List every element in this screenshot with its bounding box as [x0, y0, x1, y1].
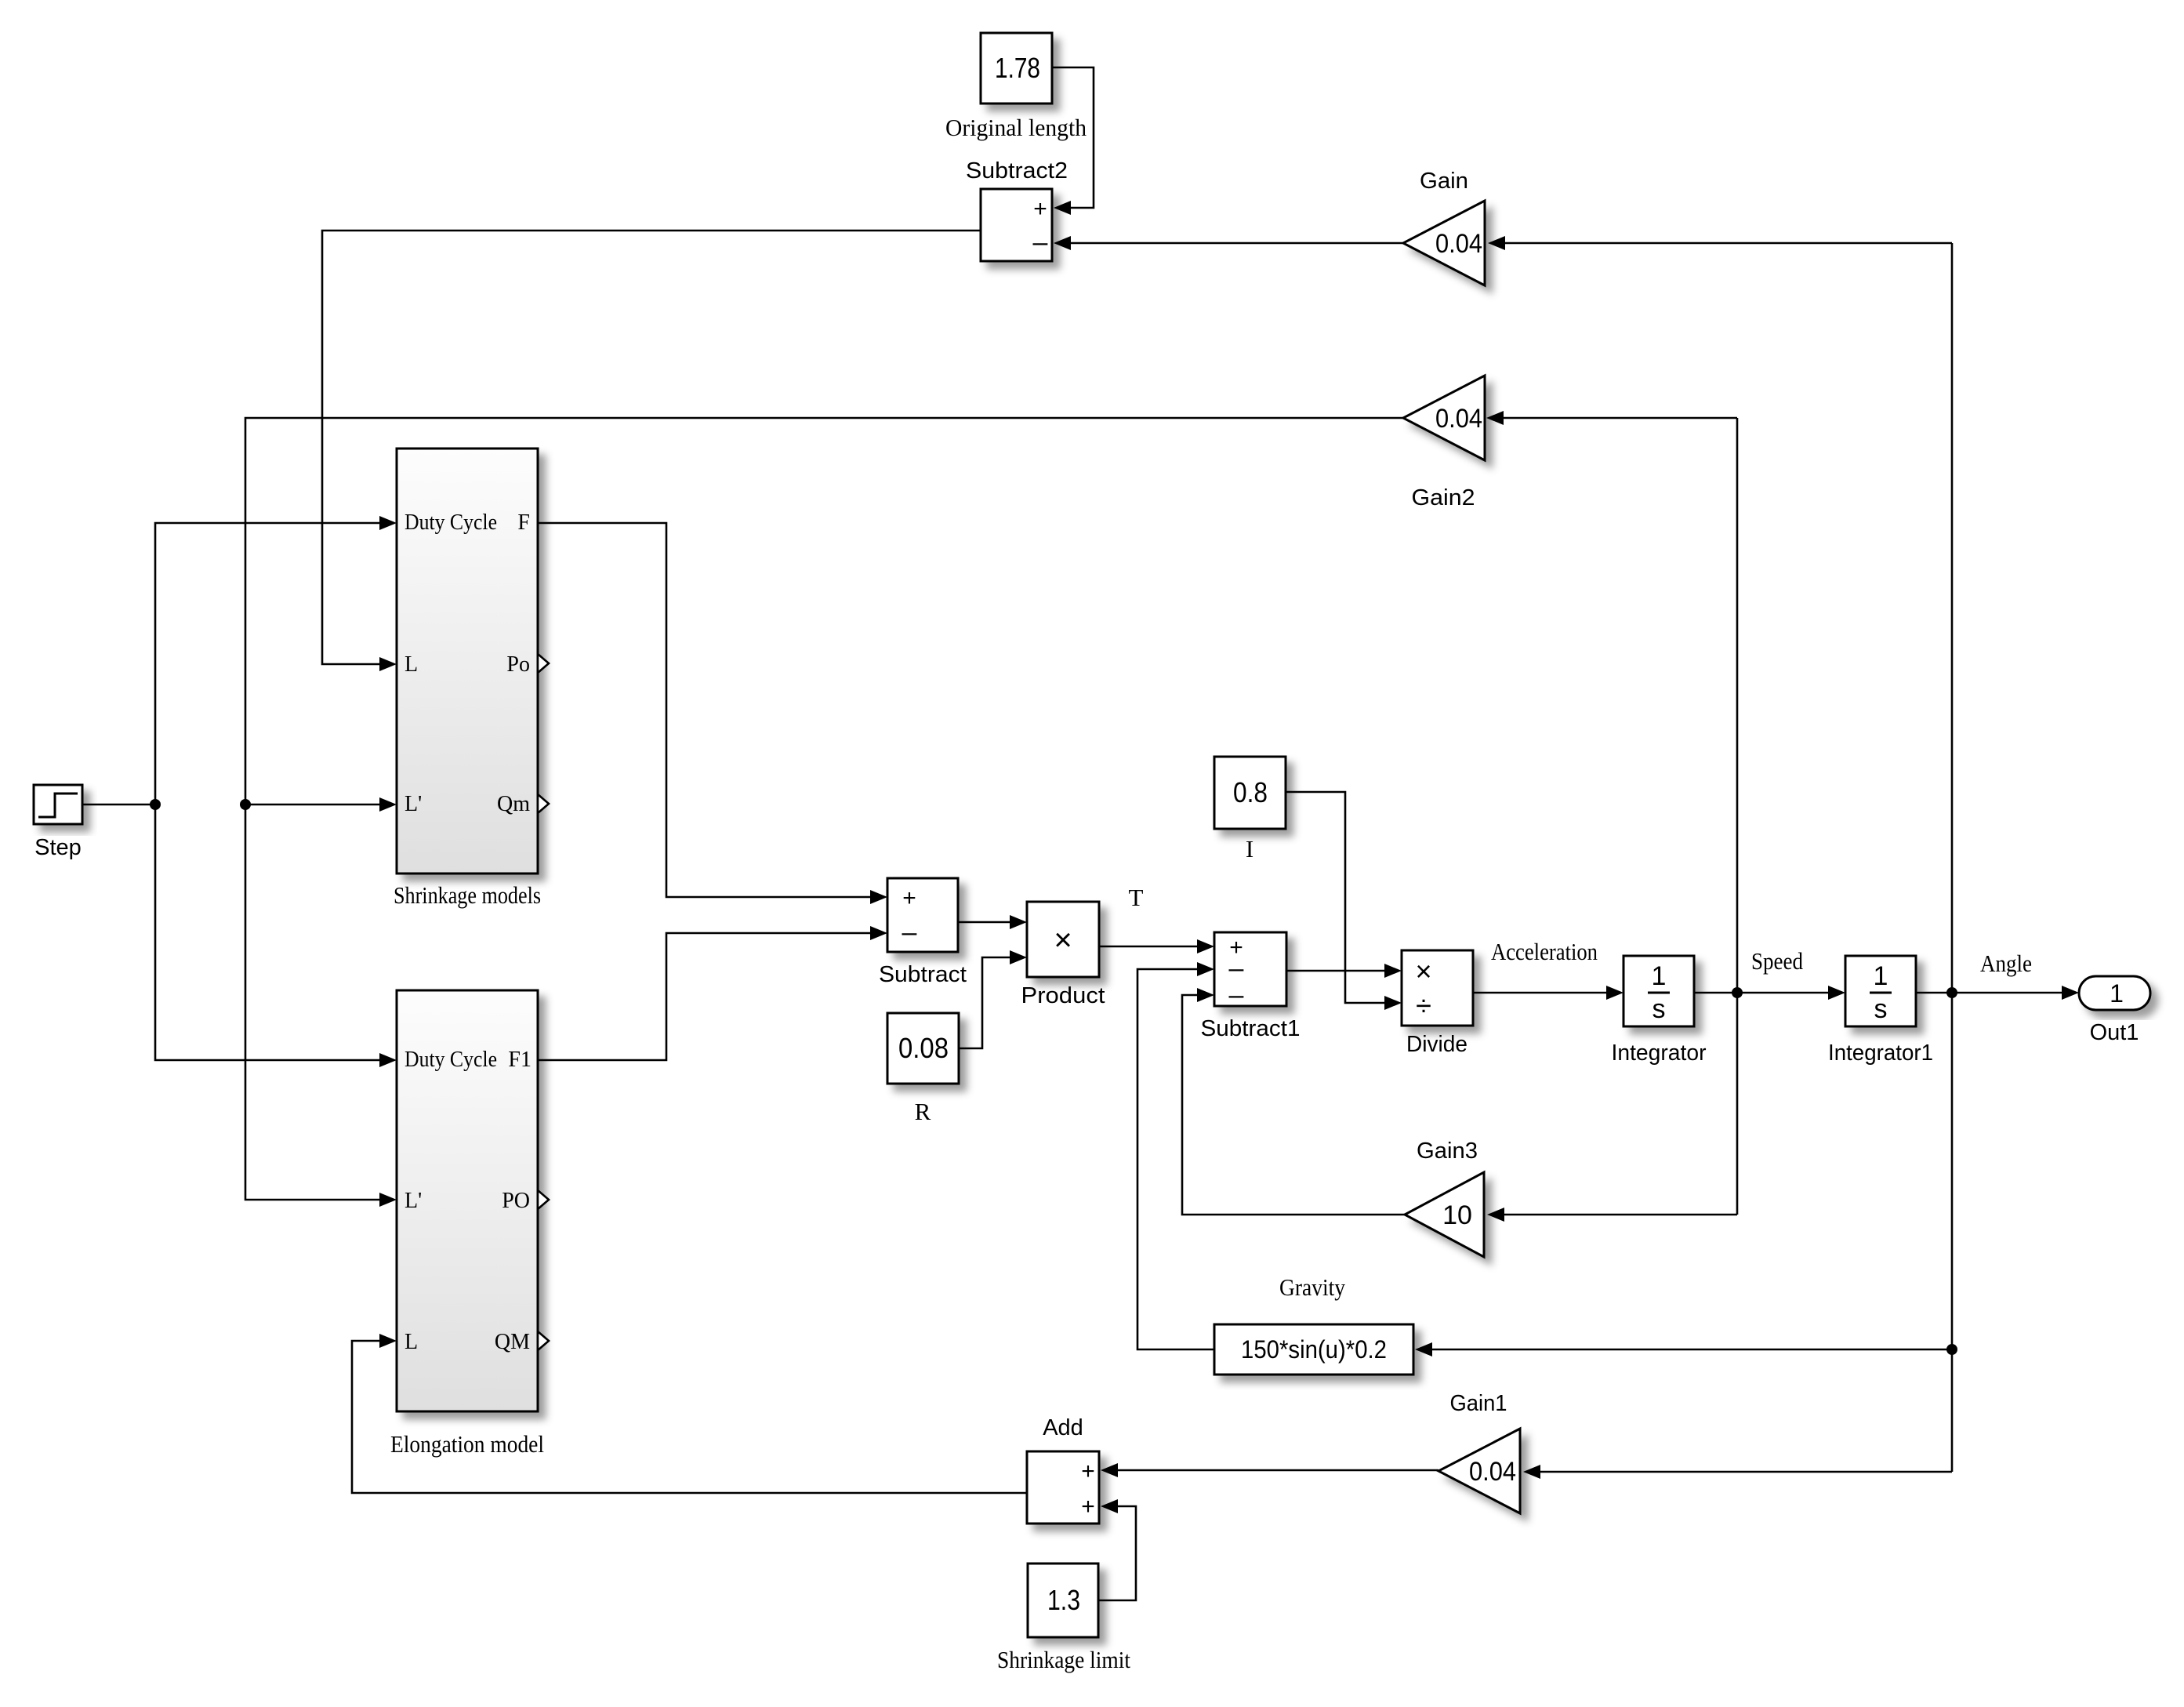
svg-text:Add: Add: [1043, 1415, 1083, 1440]
svg-text:+: +: [1081, 1494, 1095, 1520]
svg-text:Shrinkage limit: Shrinkage limit: [997, 1646, 1130, 1673]
svg-text:Divide: Divide: [1406, 1032, 1467, 1057]
svg-text:×: ×: [1054, 923, 1072, 957]
gain Gain1: [1438, 1429, 1520, 1513]
svg-text:Gain: Gain: [1420, 169, 1468, 194]
label Out1: [2090, 1020, 2139, 1045]
svg-text:Out1: Out1: [2090, 1020, 2139, 1045]
svg-text:QM: QM: [495, 1330, 530, 1354]
svg-text:T: T: [1129, 884, 1144, 911]
adder Subtract: [887, 878, 958, 952]
svg-text:F: F: [517, 510, 530, 535]
source Step: [34, 785, 82, 824]
multiplier Product: [1027, 902, 1099, 977]
wire Angle feedback to Gravity input: [1415, 1342, 1952, 1357]
wire Speed feedback to Gain3 input: [1487, 1208, 1737, 1222]
svg-text:0.8: 0.8: [1233, 776, 1268, 808]
wire Angle feedback to Gain input: [1488, 236, 1952, 250]
svg-text:Subtract2: Subtract2: [966, 158, 1068, 183]
wire Step to junction: [82, 804, 155, 806]
wire constant 1.3 to Add: [1098, 1499, 1136, 1600]
constant Shrinkage limit 1.3: [1028, 1564, 1098, 1637]
svg-text:L: L: [405, 1330, 418, 1354]
svg-text:1: 1: [2110, 979, 2124, 1008]
svg-text:Acceleration: Acceleration: [1491, 938, 1598, 965]
label I: [1246, 835, 1253, 863]
svg-text:Po: Po: [506, 652, 530, 677]
wire Angle feedback to Gain1 input: [1523, 1465, 1952, 1479]
svg-text:F1: F1: [508, 1048, 531, 1072]
svg-text:Speed: Speed: [1751, 947, 1803, 975]
outport Out1: [2079, 976, 2150, 1010]
adder Subtract2: [981, 189, 1052, 261]
label Step: [34, 835, 82, 860]
fcn Gravity: [1214, 1324, 1413, 1375]
svg-text:–: –: [902, 917, 917, 947]
svg-text:Integrator: Integrator: [1612, 1041, 1707, 1066]
svg-text:÷: ÷: [1416, 990, 1431, 1022]
wire Gain3 output to Subtract1 minus2: [1182, 988, 1405, 1215]
svg-text:L': L': [405, 1189, 422, 1213]
integrator Integrator: [1623, 956, 1694, 1026]
adder Subtract1: [1214, 932, 1286, 1010]
label Gain2: [1412, 485, 1475, 510]
svg-text:1.78: 1.78: [995, 52, 1040, 84]
label Divide: [1406, 1032, 1467, 1057]
label Subtract1: [1201, 1016, 1301, 1041]
constant 1.78: [981, 33, 1052, 104]
svg-text:L': L': [405, 792, 422, 816]
svg-text:0.04: 0.04: [1469, 1457, 1516, 1487]
subsystem Elongation model: [397, 990, 538, 1411]
divider Divide: [1402, 950, 1473, 1026]
wire Gravity output to Subtract1 minus: [1137, 962, 1214, 1349]
label Original length: [945, 114, 1087, 141]
wire constant I to Divide divisor: [1286, 792, 1402, 1010]
svg-text:Duty Cycle: Duty Cycle: [405, 1048, 497, 1072]
svg-text:s: s: [1874, 994, 1888, 1024]
wire Subtract output to Product: [958, 915, 1027, 929]
svg-text:×: ×: [1415, 955, 1431, 987]
wire Gain2 output to L-prime inputs: [245, 418, 1403, 1207]
svg-text:Elongation model: Elongation model: [390, 1430, 544, 1458]
svg-text:Integrator1: Integrator1: [1828, 1041, 1933, 1066]
svg-text:PO: PO: [502, 1189, 530, 1213]
label Gain3: [1417, 1139, 1478, 1164]
gain Gain2: [1403, 376, 1485, 460]
port chevron PO: [538, 1190, 549, 1209]
label signal Speed: [1751, 947, 1803, 975]
wire Elongation F1 to Subtract minus: [538, 926, 887, 1060]
svg-text:Gain1: Gain1: [1450, 1391, 1507, 1416]
port chevron Qm: [538, 794, 549, 813]
wire Step branch down to Elongation Duty Cycle: [155, 804, 397, 1067]
label Add: [1043, 1415, 1083, 1440]
svg-text:–: –: [1229, 980, 1244, 1010]
label signal Acceleration: [1491, 938, 1598, 965]
svg-text:s: s: [1653, 994, 1666, 1024]
wire Gain1 output to Add: [1101, 1463, 1438, 1477]
integrator Integrator1: [1845, 956, 1916, 1026]
subsystem Shrinkage models: [397, 449, 538, 873]
svg-text:Duty Cycle: Duty Cycle: [405, 510, 497, 535]
svg-text:0.04: 0.04: [1435, 404, 1482, 434]
label Subtract2: [966, 158, 1068, 183]
wire constant 1.78 to Subtract2 plus: [1052, 67, 1094, 215]
svg-text:Gain3: Gain3: [1417, 1139, 1478, 1164]
wire Angle feedback vertical: [1951, 243, 1954, 1472]
svg-text:+: +: [1033, 196, 1047, 222]
label signal Angle: [1980, 950, 2032, 977]
label Product: [1021, 983, 1105, 1008]
constant R 0.08: [887, 1013, 959, 1084]
wire Shrinkage F to Subtract plus: [538, 523, 887, 904]
svg-text:+: +: [1081, 1458, 1095, 1484]
gain Gain: [1403, 201, 1485, 285]
svg-text:1: 1: [1874, 961, 1888, 991]
svg-text:0.04: 0.04: [1435, 229, 1482, 259]
wire Subtract2 output to Shrinkage L: [322, 231, 981, 671]
wire Speed feedback to Gain2 input: [1486, 411, 1737, 425]
label Integrator: [1612, 1041, 1707, 1066]
svg-text:Qm: Qm: [497, 792, 530, 816]
svg-text:+: +: [902, 885, 916, 911]
node junction Angle: [1946, 987, 1957, 998]
gain Gain3: [1405, 1172, 1484, 1257]
node junction on Step output: [150, 799, 161, 810]
node junction Gain2 line to Shrinkage L-prime: [240, 797, 397, 812]
constant I 0.8: [1214, 757, 1286, 829]
port chevron Po: [538, 654, 549, 673]
svg-text:Gravity: Gravity: [1279, 1273, 1345, 1301]
adder Add: [1027, 1451, 1099, 1524]
wire constant R to Product: [959, 950, 1027, 1048]
svg-text:Product: Product: [1021, 983, 1105, 1008]
label Integrator1: [1828, 1041, 1933, 1066]
svg-text:–: –: [1229, 953, 1244, 983]
wire Add output to Elongation L: [352, 1334, 1027, 1493]
svg-text:Subtract: Subtract: [879, 962, 967, 987]
label Gain: [1420, 169, 1468, 194]
svg-text:Step: Step: [34, 835, 82, 860]
wire Subtract1 output to Divide: [1286, 964, 1402, 978]
wire Speed feedback vertical: [1736, 418, 1739, 1215]
svg-text:150*sin(u)*0.2: 150*sin(u)*0.2: [1241, 1335, 1387, 1364]
wire Angle Integrator1 to Out1: [1916, 986, 2079, 1000]
label Shrinkage models: [394, 881, 541, 909]
svg-text:I: I: [1246, 835, 1253, 863]
wire Speed Integrator to Integrator1: [1694, 986, 1845, 1000]
wire Product output T to Subtract1 plus: [1099, 939, 1214, 953]
node junction Gravity branch: [1946, 1344, 1957, 1355]
svg-text:Gain2: Gain2: [1412, 485, 1475, 510]
wire Acceleration Divide to Integrator: [1473, 986, 1623, 1000]
label Subtract: [879, 962, 967, 987]
svg-text:Angle: Angle: [1980, 950, 2032, 977]
svg-text:L: L: [405, 652, 418, 677]
label Gravity: [1279, 1273, 1345, 1301]
svg-text:R: R: [915, 1098, 931, 1125]
svg-text:Subtract1: Subtract1: [1201, 1016, 1301, 1041]
svg-text:10: 10: [1442, 1200, 1472, 1230]
label R: [915, 1098, 931, 1125]
svg-text:–: –: [1033, 227, 1048, 257]
label Gain1: [1450, 1391, 1507, 1416]
svg-text:1.3: 1.3: [1047, 1584, 1080, 1616]
svg-text:Shrinkage models: Shrinkage models: [394, 881, 541, 909]
svg-text:1: 1: [1652, 961, 1667, 991]
svg-text:Original length: Original length: [945, 114, 1087, 141]
label Shrinkage limit: [997, 1646, 1130, 1673]
wire Gain output to Subtract2 minus: [1054, 236, 1403, 250]
node junction Speed: [1732, 987, 1743, 998]
wire Step branch up to Shrinkage Duty Cycle: [155, 516, 397, 804]
svg-text:0.08: 0.08: [898, 1032, 949, 1064]
port chevron QM: [538, 1331, 549, 1350]
label Elongation model: [390, 1430, 544, 1458]
label signal T: [1129, 884, 1144, 911]
